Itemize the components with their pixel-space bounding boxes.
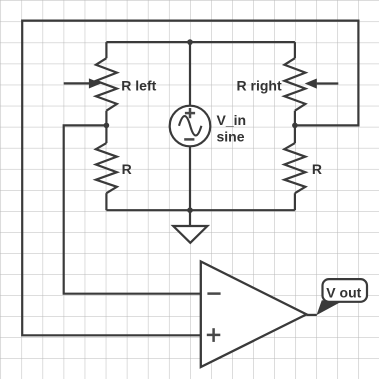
- potentiometer R left: [64, 42, 117, 125]
- wire : stub from top rail down to V_in source top: [189, 42, 191, 106]
- voltage source V_in sine: [170, 106, 211, 147]
- svg-text:R: R: [312, 161, 322, 177]
- wire : bottom bridge rail: [106, 209, 295, 211]
- potentiometer R right: [284, 42, 338, 125]
- node : bottom-center junction: [187, 207, 193, 213]
- op-amp U1: [201, 262, 307, 368]
- ground: [173, 210, 207, 243]
- svg-text:V out: V out: [326, 284, 361, 300]
- resistor R (right lower): [284, 125, 305, 210]
- wire : feedback loop from R-right tap up across top, down left side to op-amp + input: [22, 21, 358, 336]
- svg-text:R right: R right: [237, 77, 282, 93]
- wire : V_in bottom to bridge bottom rail: [189, 147, 191, 211]
- svg-text:R: R: [122, 161, 132, 177]
- node : right tap junction: [292, 123, 298, 129]
- node : top-center junction: [187, 39, 193, 45]
- svg-text:R left: R left: [121, 77, 156, 93]
- svg-text:V_in: V_in: [217, 112, 247, 128]
- node : left tap junction: [104, 123, 110, 129]
- wire : inner top rail joining both potentiometer tops: [106, 41, 295, 43]
- resistor R (left lower): [96, 125, 117, 210]
- wire : op-amp output stub: [307, 314, 317, 316]
- label V out callout: [317, 279, 368, 315]
- svg-text:sine: sine: [217, 128, 245, 144]
- wire : from left tap junction left and down to op-amp - input: [64, 125, 201, 293]
